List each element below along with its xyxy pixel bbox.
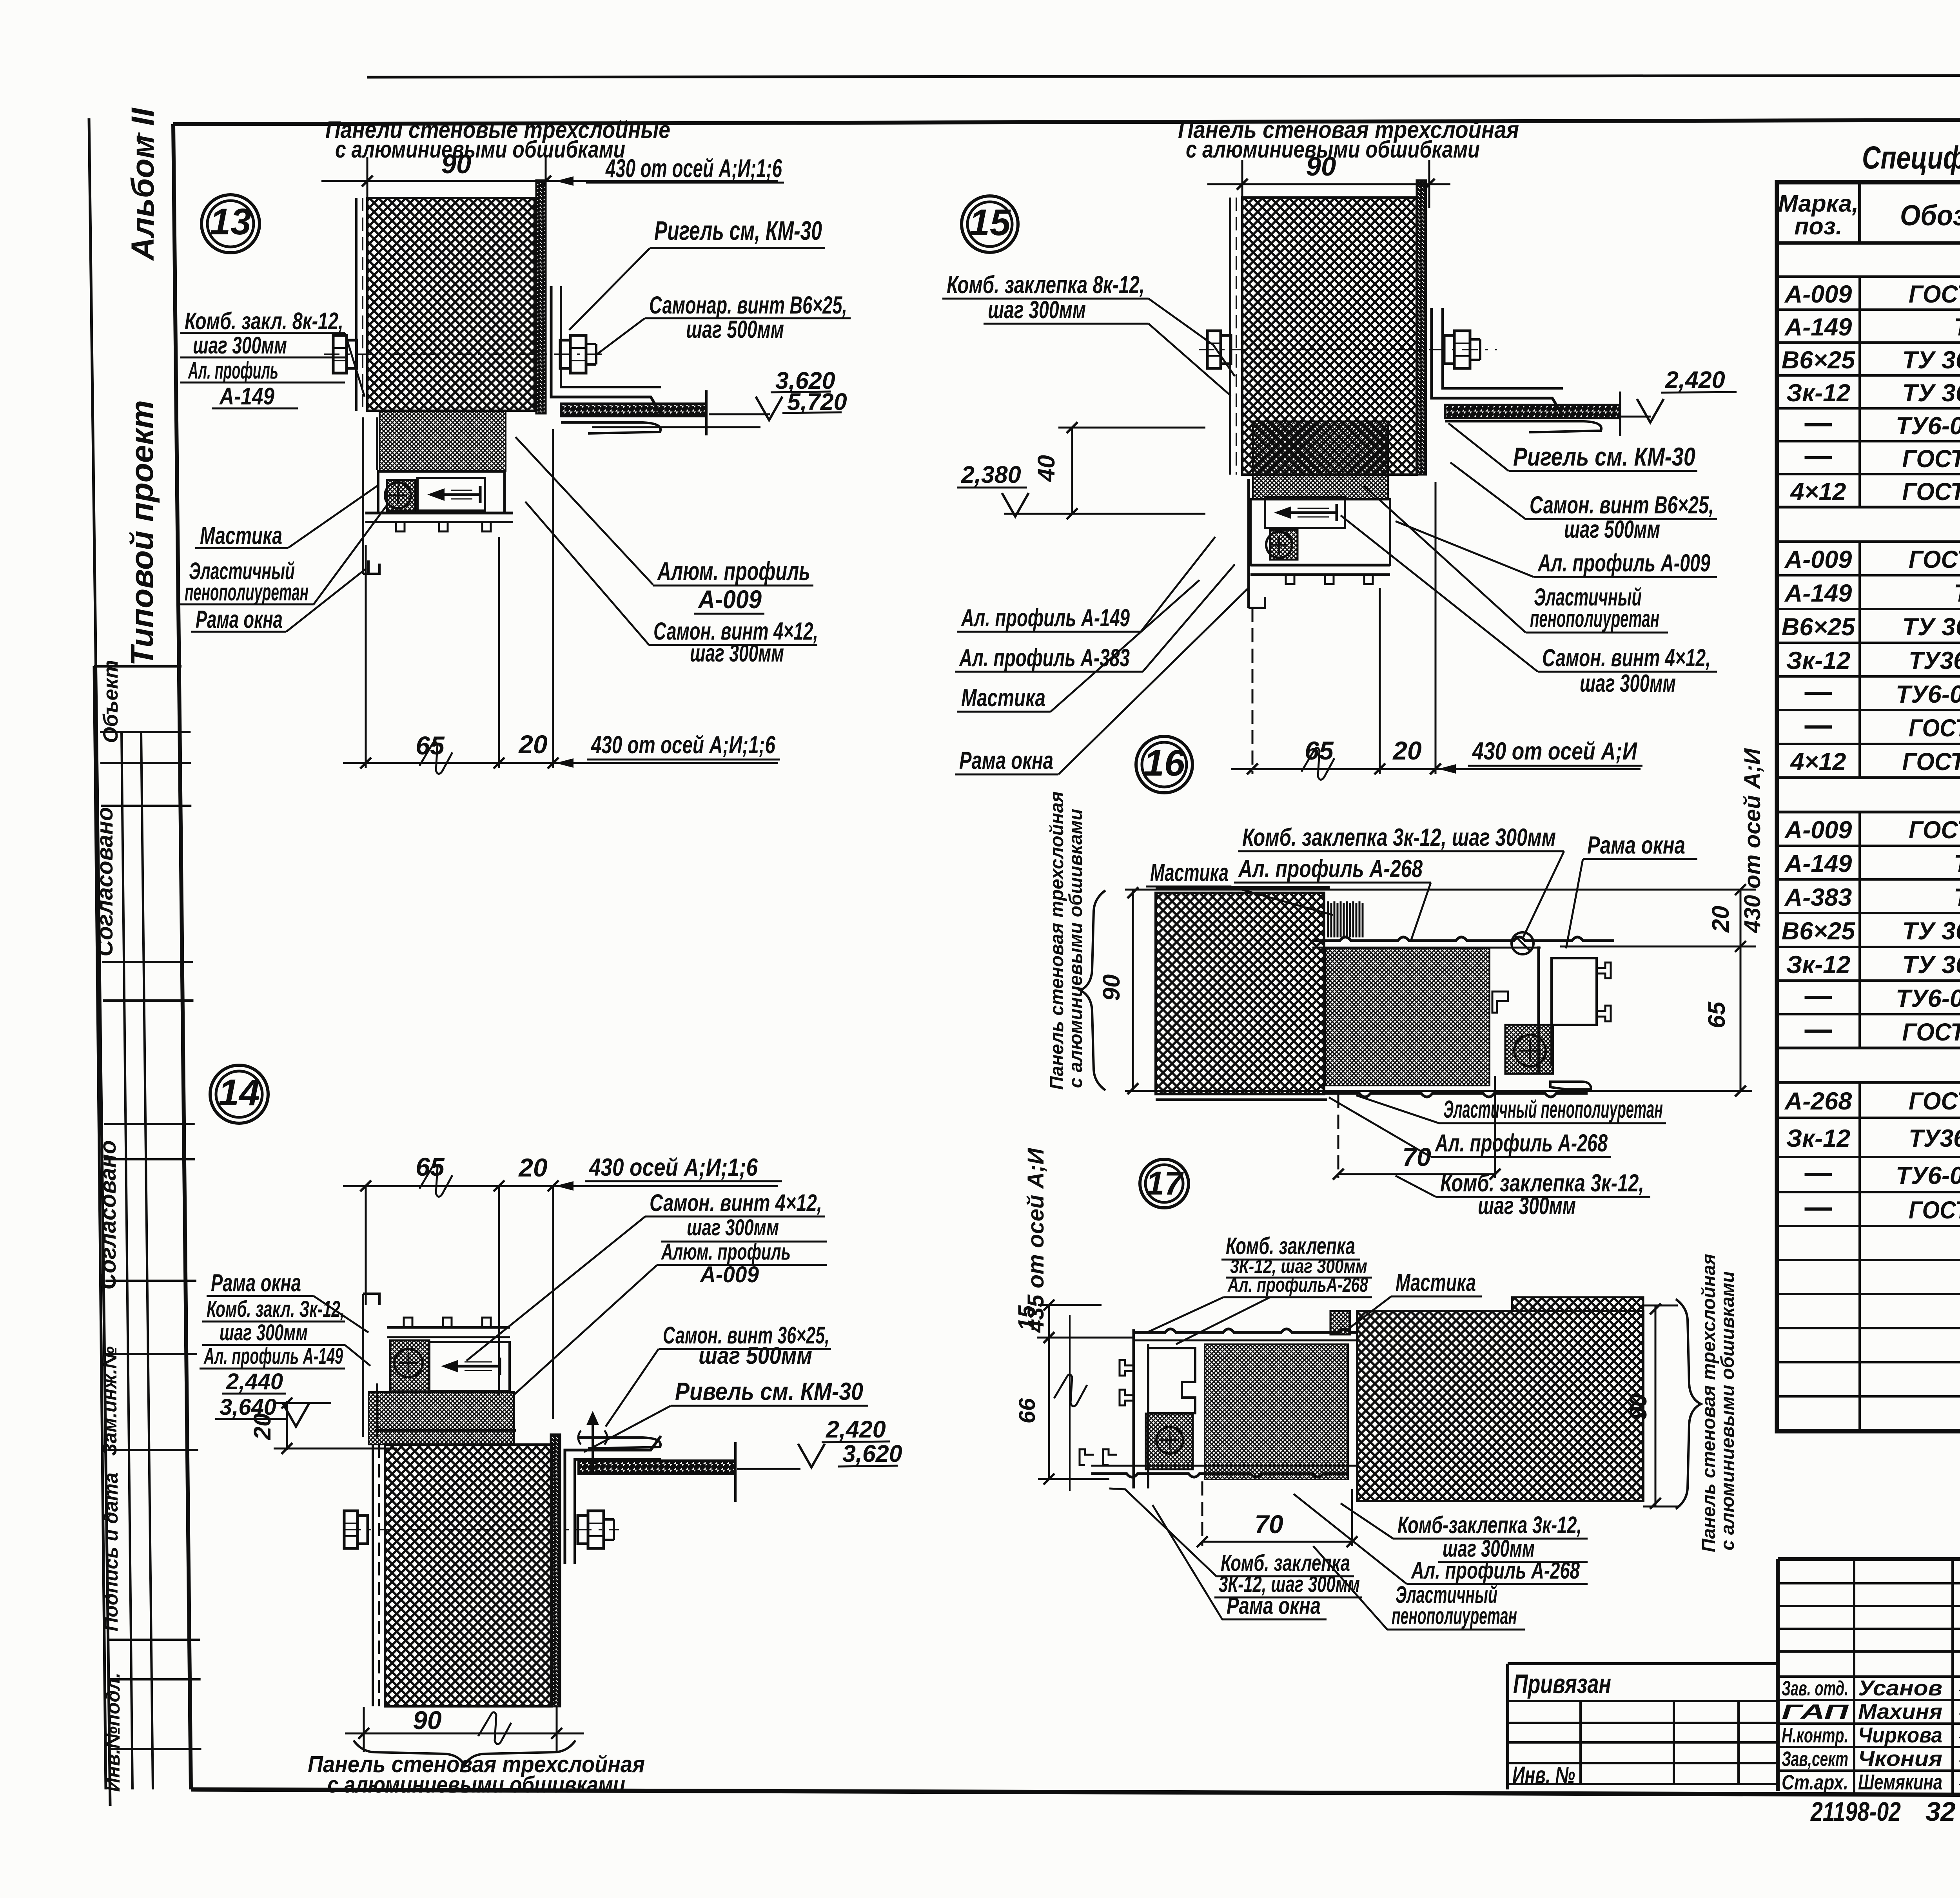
node 13 foam joint — [379, 411, 506, 471]
svg-text:Ал. профиль А-149: Ал. профиль А-149 — [961, 604, 1130, 632]
svg-text:Ал. профиль А-268: Ал. профиль А-268 — [1411, 1557, 1580, 1584]
svg-text:Эластичный пенополиуретан: Эластичный пенополиуретан — [1443, 1096, 1663, 1123]
node 15 bubble — [962, 196, 1018, 252]
svg-text:430 от осей А;И: 430 от осей А;И — [1740, 748, 1765, 934]
node 14 rigel strip — [579, 1461, 735, 1474]
inner frame top — [173, 119, 1960, 124]
spec band Узел 15 — [1777, 776, 1960, 779]
bolt axis — [1199, 349, 1497, 350]
bolt axis — [345, 1529, 619, 1530]
svg-text:Усанов: Усанов — [1858, 1676, 1942, 1700]
svg-text:шаг 300мм: шаг 300мм — [193, 332, 287, 359]
node 14 gasket square — [390, 1340, 429, 1391]
svg-text:90: 90 — [1098, 974, 1125, 1001]
svg-text:Махиня: Махиня — [1858, 1699, 1942, 1724]
node 15 window frame — [1250, 499, 1390, 565]
node 15 foam joint — [1253, 421, 1388, 499]
bolt left nut — [1207, 331, 1221, 368]
spec empty rows — [1777, 1259, 1960, 1261]
node 17 panel core step — [1512, 1297, 1643, 1311]
svg-text:ТУ6-05-1473-76: ТУ6-05-1473-76 — [1896, 1162, 1960, 1189]
svg-text:шаг 300мм: шаг 300мм — [220, 1320, 308, 1345]
svg-text:20: 20 — [249, 1413, 276, 1440]
node 14 vertical screw — [592, 1417, 594, 1472]
svg-text:5,720: 5,720 — [787, 388, 847, 415]
svg-text:ГОСТ 8617-81: ГОСТ 8617-81 — [1909, 816, 1960, 844]
svg-text:Зк-12: Зк-12 — [1786, 379, 1850, 407]
node 16 bubble — [1136, 736, 1192, 793]
node 15 panel inner skin — [1417, 180, 1426, 475]
svg-text:пенополиуретан: пенополиуретан — [1392, 1603, 1517, 1629]
node 16 panel core — [1156, 893, 1324, 1094]
svg-text:Комб. заклепка 8к-12,: Комб. заклепка 8к-12, — [947, 271, 1145, 299]
svg-text:с алюминиевыми обшибками: с алюминиевыми обшибками — [335, 136, 625, 163]
node 17 bubble — [1140, 1159, 1189, 1208]
svg-text:В6×25: В6×25 — [1782, 613, 1855, 641]
svg-text:ГОСТ14791-79: ГОСТ14791-79 — [1909, 714, 1960, 742]
node 13 panel core — [367, 198, 535, 411]
svg-text:Самон. винт В6×25,: Самон. винт В6×25, — [1530, 491, 1714, 519]
node 17 extension vertical — [1069, 1315, 1071, 1491]
node 17 panel core — [1357, 1311, 1643, 1501]
svg-text:Комб. закл. Зк-12,: Комб. закл. Зк-12, — [207, 1296, 345, 1322]
node 14 panel core — [385, 1445, 552, 1706]
svg-text:Зав,сект: Зав,сект — [1782, 1748, 1848, 1771]
svg-text:Ригель см. КМ-30: Ригель см. КМ-30 — [1513, 442, 1695, 471]
svg-text:Комб. заклепка 3к-12, шаг 300м: Комб. заклепка 3к-12, шаг 300мм — [1242, 824, 1556, 851]
node 17 bottom profile — [1091, 1474, 1347, 1477]
node 17 gasket square — [1146, 1414, 1193, 1469]
bolt axis — [324, 353, 602, 355]
svg-text:20: 20 — [1392, 736, 1422, 765]
svg-text:70: 70 — [1254, 1510, 1283, 1539]
svg-text:65: 65 — [416, 1152, 445, 1181]
svg-text:Мастика: Мастика — [1150, 859, 1229, 886]
node 14 angle plate — [565, 1436, 661, 1564]
spec band Узел 14 — [1777, 506, 1960, 509]
title block left grid — [1778, 1582, 1960, 1584]
svg-text:Чкония: Чкония — [1858, 1746, 1942, 1771]
svg-text:Алюм. профиль: Алюм. профиль — [661, 1239, 791, 1265]
node 15 panel core — [1242, 198, 1417, 475]
svg-text:90: 90 — [1306, 151, 1336, 181]
spec rows uzel 15 — [1777, 845, 1960, 847]
spec rows uzel 13 — [1777, 308, 1960, 311]
node 15 gasket square — [1270, 530, 1298, 560]
svg-text:Согласовано: Согласовано — [92, 807, 118, 956]
svg-text:Обозначение: Обозначение — [1900, 199, 1960, 232]
svg-text:Мастика: Мастика — [200, 522, 282, 549]
node 14 left jamb — [362, 1294, 364, 1437]
svg-text:Мастика: Мастика — [1396, 1269, 1476, 1296]
svg-text:ТУ 36-2142-78: ТУ 36-2142-78 — [1902, 346, 1960, 374]
svg-text:Рама окна: Рама окна — [1587, 832, 1685, 859]
node 14 foam joint — [368, 1392, 514, 1445]
node 15 angle plate — [1432, 308, 1563, 415]
svg-text:Чиркова: Чиркова — [1858, 1723, 1942, 1747]
svg-text:То же: То же — [1954, 884, 1960, 911]
svg-text:ТУ36-2088-77: ТУ36-2088-77 — [1909, 1125, 1960, 1152]
node 17 foam core — [1205, 1344, 1348, 1479]
svg-text:А-149: А-149 — [1784, 580, 1852, 607]
node 14 top extension lines — [365, 1186, 367, 1305]
svg-text:Комб. закл. 8к-12,: Комб. закл. 8к-12, — [185, 308, 343, 334]
svg-text:ТУ 36-2142-78: ТУ 36-2142-78 — [1902, 917, 1960, 945]
svg-text:16: 16 — [1143, 742, 1185, 784]
svg-text:То же: То же — [1954, 850, 1960, 877]
bolt right nut — [578, 1515, 588, 1544]
sheet outer edge top — [367, 75, 1960, 77]
node 16 bottom hook piece — [1550, 1082, 1591, 1089]
svg-text:Зам.инж.№: Зам.инж.№ — [99, 1346, 121, 1456]
svg-text:Рама окна: Рама окна — [196, 606, 283, 633]
svg-text:15: 15 — [1014, 1305, 1039, 1331]
svg-text:20: 20 — [518, 730, 548, 759]
svg-text:ТУ6-05-1473-76: ТУ6-05-1473-76 — [1896, 412, 1960, 440]
svg-text:А-268: А-268 — [1784, 1088, 1852, 1115]
svg-text:430 от осей А;И;1;6: 430 от осей А;И;1;6 — [605, 154, 782, 183]
svg-text:4×12: 4×12 — [1790, 478, 1846, 506]
svg-text:Алюм. профиль: Алюм. профиль — [657, 557, 810, 586]
svg-text:13: 13 — [210, 201, 251, 243]
node 14 top dims — [343, 1185, 778, 1187]
svg-text:Ал. профиль А-009: Ал. профиль А-009 — [1537, 549, 1710, 577]
spec band Узел 13 — [1777, 242, 1960, 245]
svg-text:Ал. профиль А-383: Ал. профиль А-383 — [959, 644, 1130, 672]
svg-text:А-009: А-009 — [699, 1262, 759, 1287]
svg-text:Рама окна: Рама окна — [1227, 1592, 1321, 1619]
svg-text:ТУ6-05-1473-76: ТУ6-05-1473-76 — [1896, 985, 1960, 1012]
node 15 bottom dims — [1231, 768, 1450, 770]
svg-text:шаг 300мм: шаг 300мм — [988, 296, 1086, 324]
node 13 rigel strip — [561, 404, 706, 416]
node 14 panel skins — [372, 1445, 374, 1706]
svg-text:14: 14 — [218, 1072, 260, 1113]
node 13 bottom extension lines — [365, 545, 367, 768]
svg-text:ГОСТ 14791-79: ГОСТ 14791-79 — [1902, 1019, 1960, 1046]
svg-text:65: 65 — [1305, 736, 1334, 765]
svg-text:Зк-12: Зк-12 — [1786, 1125, 1850, 1152]
svg-text:А-009: А-009 — [1784, 546, 1852, 573]
svg-text:с алюминиевыми обшивками: с алюминиевыми обшивками — [1065, 809, 1086, 1088]
bolt right nut — [560, 340, 570, 368]
svg-text:А-009: А-009 — [1784, 281, 1852, 308]
svg-text:Н.контр.: Н.контр. — [1782, 1724, 1848, 1747]
svg-text:А-009: А-009 — [1784, 816, 1852, 844]
svg-text:66: 66 — [1014, 1398, 1040, 1423]
svg-text:ТУ6-05-1473-76: ТУ6-05-1473-76 — [1896, 681, 1960, 708]
svg-text:90: 90 — [441, 149, 472, 179]
node 13 left jamb — [362, 417, 364, 574]
svg-text:шаг 300мм: шаг 300мм — [1580, 670, 1676, 697]
node 13 bottom dims — [343, 762, 778, 764]
svg-text:А-009: А-009 — [697, 585, 762, 614]
node 16 head ribbon profile — [1312, 937, 1614, 941]
spec band Узел 16; Узел 17 — [1777, 1047, 1960, 1050]
svg-text:Ал. профиль: Ал. профиль — [188, 357, 278, 384]
spec rows uzel 14 — [1777, 574, 1960, 576]
node 17 joint block — [1330, 1311, 1350, 1334]
node 13 angle plate — [551, 286, 661, 414]
node 17 top channel — [1134, 1329, 1358, 1332]
svg-text:Самон. винт 4×12,: Самон. винт 4×12, — [1542, 644, 1711, 672]
svg-text:70: 70 — [1402, 1142, 1431, 1171]
svg-text:40: 40 — [1033, 455, 1060, 482]
svg-text:шаг 500мм: шаг 500мм — [686, 316, 784, 343]
svg-text:шаг 500мм: шаг 500мм — [1564, 516, 1660, 543]
svg-text:ТУ 36-2142-78: ТУ 36-2142-78 — [1902, 613, 1960, 641]
node 17 window left profile — [1132, 1329, 1135, 1488]
svg-text:32: 32 — [1926, 1796, 1956, 1827]
svg-text:2,420: 2,420 — [826, 1416, 886, 1443]
node 17 brace label — [1676, 1299, 1701, 1509]
svg-text:Самон. винт 4×12,: Самон. винт 4×12, — [650, 1189, 822, 1216]
svg-text:ГОСТ 14791-79: ГОСТ 14791-79 — [1902, 445, 1960, 473]
svg-text:шаг 500мм: шаг 500мм — [699, 1342, 812, 1369]
svg-text:Мастика: Мастика — [961, 684, 1045, 712]
svg-text:То же: То же — [1954, 314, 1960, 341]
svg-text:ГОСТ14791-79: ГОСТ14791-79 — [1909, 1196, 1960, 1224]
node 14 window top channel — [387, 1326, 510, 1329]
spec table header — [1777, 241, 1960, 245]
svg-text:поз.: поз. — [1794, 213, 1842, 239]
svg-text:430 от осей А;И: 430 от осей А;И — [1472, 738, 1637, 765]
svg-text:шаг 300мм: шаг 300мм — [687, 1215, 779, 1240]
node 15 left jamb — [1247, 479, 1250, 608]
svg-text:Спецификация к маркировочным с: Спецификация к маркировочным схемам на л… — [1862, 140, 1960, 176]
svg-text:шаг 300мм: шаг 300мм — [1478, 1192, 1576, 1220]
node 16 mastika coil — [1327, 901, 1329, 937]
svg-text:Ал. профильА-268: Ал. профильА-268 — [1227, 1273, 1368, 1296]
margin stamp table — [94, 665, 181, 668]
node 16 panel top edge — [1156, 886, 1330, 889]
svg-text:А-383: А-383 — [1784, 884, 1852, 911]
node 13 window frame — [378, 471, 505, 513]
svg-text:20: 20 — [1707, 906, 1734, 933]
node 13 sill profile — [365, 512, 513, 515]
svg-text:4×12: 4×12 — [1790, 748, 1846, 776]
node 17 dim 90 right — [1655, 1305, 1657, 1506]
svg-text:430 от осей А;И;1;6: 430 от осей А;И;1;6 — [590, 731, 775, 759]
svg-text:Ал. профиль А-149: Ал. профиль А-149 — [203, 1343, 343, 1369]
node 14 bottom label — [354, 1740, 575, 1766]
svg-text:Панель стеновая трехслойная: Панель стеновая трехслойная — [1047, 791, 1067, 1090]
bolt right nut — [1444, 335, 1454, 364]
svg-text:ГОСТ 10621-80: ГОСТ 10621-80 — [1902, 748, 1960, 776]
svg-text:Зав. отд.: Зав. отд. — [1782, 1677, 1848, 1700]
node 13 panel skins — [355, 198, 358, 411]
node 15 rigel strip — [1445, 405, 1620, 418]
node 16 right dims — [1125, 889, 1756, 891]
bolt left nut — [344, 1511, 358, 1548]
svg-text:ТУ 36-2088-77: ТУ 36-2088-77 — [1902, 379, 1960, 407]
svg-text:Инв. №: Инв. № — [1512, 1762, 1575, 1788]
svg-text:ГОСТ 10621-80: ГОСТ 10621-80 — [1902, 478, 1960, 506]
node 15 panel skins — [1229, 198, 1231, 475]
svg-text:3,620: 3,620 — [842, 1440, 902, 1467]
node 16 rivet top — [1512, 932, 1534, 954]
svg-text:Ст.арх.: Ст.арх. — [1782, 1771, 1848, 1794]
svg-text:Ривель см. КМ-30: Ривель см. КМ-30 — [675, 1378, 863, 1405]
svg-text:шаг 300мм: шаг 300мм — [690, 640, 784, 667]
node 13 bubble — [201, 195, 260, 253]
svg-text:90: 90 — [1625, 1394, 1651, 1420]
svg-text:ТУ 36-2088-77: ТУ 36-2088-77 — [1902, 951, 1960, 979]
svg-text:Ал. профиль А-268: Ал. профиль А-268 — [1238, 855, 1423, 883]
title block outline — [1778, 1557, 1960, 1561]
svg-text:пенополиуретан: пенополиуретан — [185, 579, 309, 605]
node 14 sill profile — [375, 1429, 516, 1432]
svg-text:ГОСТ 8617-81: ГОСТ 8617-81 — [1909, 281, 1960, 308]
privyazan table — [1508, 1662, 1778, 1665]
svg-text:Ригель см, КМ-30: Ригель см, КМ-30 — [654, 216, 822, 246]
spec table outer border — [1777, 182, 1960, 1431]
sheet outer edge left — [89, 118, 110, 1806]
node 17 inner channel — [1148, 1348, 1195, 1413]
svg-text:Ал. профиль А-268: Ал. профиль А-268 — [1435, 1129, 1608, 1157]
svg-text:15: 15 — [969, 202, 1011, 243]
svg-text:2,440: 2,440 — [226, 1369, 283, 1394]
node 15 sill profile — [1250, 564, 1390, 567]
node 16 window frame — [1537, 946, 1540, 1074]
svg-text:2,420: 2,420 — [1665, 366, 1725, 393]
node 14 window frame box — [429, 1342, 510, 1391]
svg-text:Объект: Объект — [99, 660, 122, 743]
svg-text:21198-02: 21198-02 — [1810, 1796, 1901, 1827]
node 14 panel inner skin — [551, 1434, 560, 1706]
inner frame bottom — [191, 1789, 1960, 1796]
bolt left nut — [333, 335, 347, 373]
svg-text:Типовой проект: Типовой проект — [124, 400, 160, 666]
node 15 bottom extension lines — [1252, 608, 1254, 774]
svg-text:пенополиуретан: пенополиуретан — [1530, 605, 1659, 633]
node 16 panel bottom edge — [1156, 1099, 1327, 1101]
svg-text:с алюминиевыми обшивками: с алюминиевыми обшивками — [1717, 1271, 1738, 1551]
node 16 hook small — [1492, 992, 1508, 1013]
svg-text:ГОСТ 8617-81: ГОСТ 8617-81 — [1909, 1088, 1960, 1115]
node 16 foam blob — [1325, 948, 1490, 1086]
svg-text:Привязан: Привязан — [1513, 1669, 1611, 1699]
svg-text:А-149: А-149 — [1784, 850, 1852, 877]
node 16 left brace — [1080, 890, 1105, 1090]
node 14 bubble — [210, 1065, 268, 1123]
svg-text:65: 65 — [1703, 1001, 1730, 1028]
svg-text:Комб-заклепка 3к-12,: Комб-заклепка 3к-12, — [1397, 1512, 1582, 1538]
node 13 panel inner skin — [536, 180, 546, 413]
svg-text:Рама окна: Рама окна — [959, 747, 1053, 774]
svg-text:ГОСТ 8617-81: ГОСТ 8617-81 — [1909, 546, 1960, 573]
svg-text:430 осей А;И;1;6: 430 осей А;И;1;6 — [588, 1154, 758, 1181]
svg-text:Согласовано: Согласовано — [95, 1140, 121, 1289]
svg-text:ТУ36-2088-77: ТУ36-2088-77 — [1909, 647, 1960, 674]
svg-text:17: 17 — [1146, 1165, 1184, 1202]
spec rows uzel 16-17 — [1777, 1117, 1960, 1119]
svg-text:Зк-12: Зк-12 — [1786, 951, 1850, 979]
svg-text:Рама окна: Рама окна — [211, 1269, 301, 1297]
svg-text:2,380: 2,380 — [961, 461, 1021, 488]
svg-text:Подпись и дата: Подпись и дата — [100, 1472, 122, 1631]
svg-text:90: 90 — [413, 1706, 442, 1735]
svg-text:Панель стеновая трехслойная: Панель стеновая трехслойная — [1699, 1254, 1719, 1552]
svg-text:В6×25: В6×25 — [1782, 346, 1855, 374]
node 16 gasket square — [1505, 1025, 1553, 1074]
svg-text:ГАП: ГАП — [1782, 1700, 1849, 1724]
inner frame left — [173, 124, 191, 1789]
svg-text:А-149: А-149 — [1784, 314, 1852, 341]
node 16 bottom ribbon — [1324, 1093, 1588, 1097]
svg-text:А-149: А-149 — [219, 383, 274, 410]
svg-text:Шемякина: Шемякина — [1858, 1770, 1942, 1794]
node 13 gasket square — [387, 480, 415, 511]
svg-text:В6×25: В6×25 — [1782, 917, 1855, 945]
svg-text:с алюминиевыми обшивками: с алюминиевыми обшивками — [327, 1772, 625, 1798]
svg-text:20: 20 — [518, 1153, 548, 1182]
svg-text:Инв.№подл.: Инв.№подл. — [102, 1673, 124, 1792]
node 14 bottom dim 90 — [345, 1733, 584, 1735]
svg-text:То же: То же — [1954, 580, 1960, 607]
svg-text:65: 65 — [416, 731, 445, 760]
svg-text:Зк-12: Зк-12 — [1786, 647, 1850, 674]
svg-text:Альбом II: Альбом II — [125, 107, 161, 261]
svg-text:Самонар. винт В6×25,: Самонар. винт В6×25, — [649, 292, 847, 319]
